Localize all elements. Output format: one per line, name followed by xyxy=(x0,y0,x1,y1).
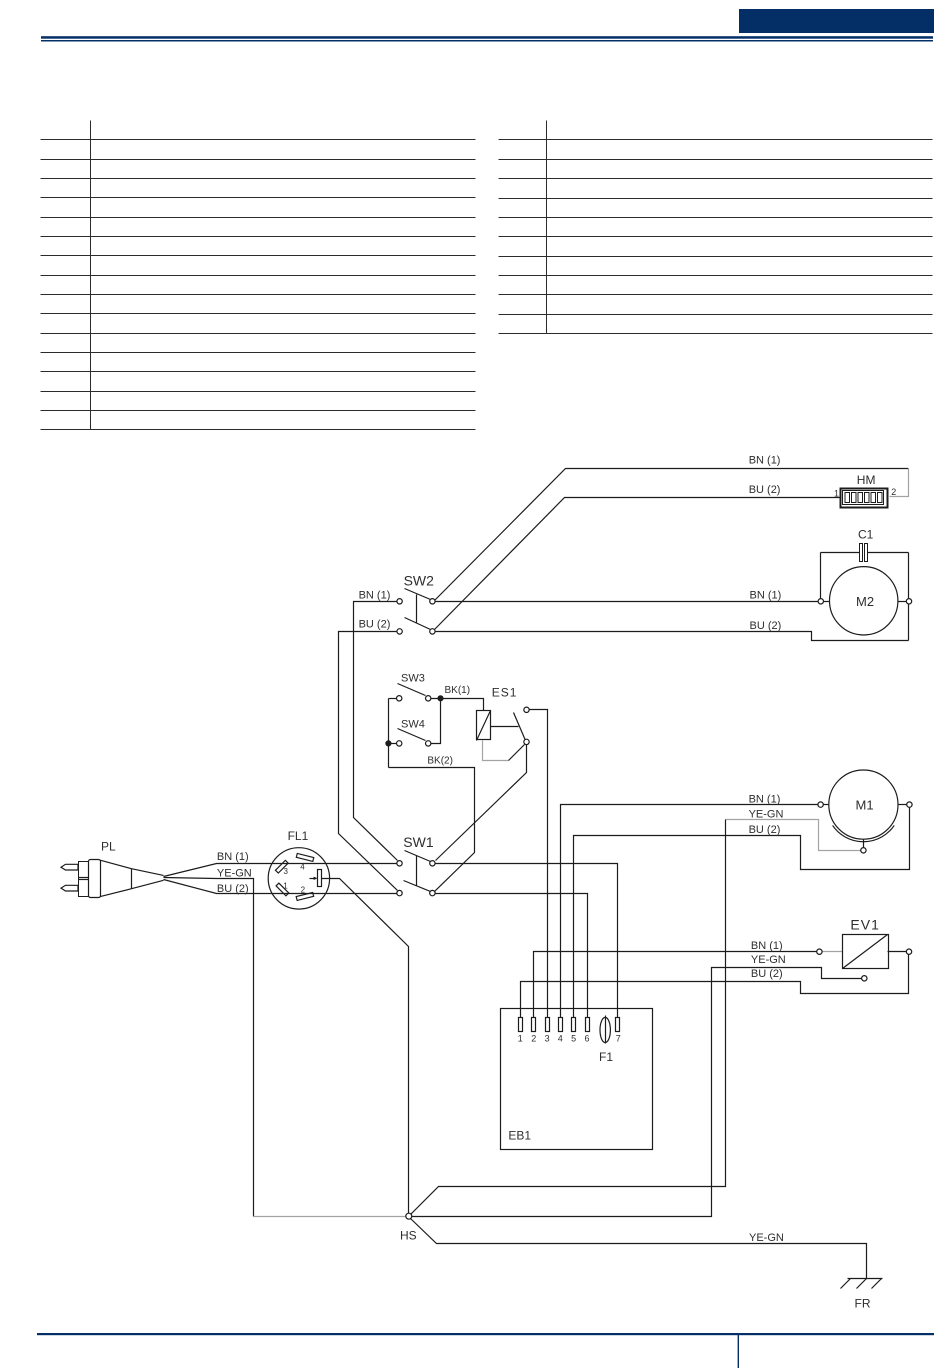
wire BN(1) SW2 left feed xyxy=(354,602,398,861)
capacitor C1 xyxy=(821,544,909,641)
wire BU(2) EB1 pin 5 to M1 xyxy=(574,808,910,1018)
junction SW4 left xyxy=(386,741,391,746)
wire SW3/SW4 left link xyxy=(389,699,397,768)
svg-text:3: 3 xyxy=(545,1034,550,1044)
svg-text:YE-GN: YE-GN xyxy=(749,808,784,820)
fuse F1 xyxy=(600,1016,610,1044)
svg-text:F1: F1 xyxy=(599,1050,613,1064)
svg-text:2: 2 xyxy=(531,1034,536,1044)
footer rule xyxy=(37,1333,934,1335)
motor M2 xyxy=(818,567,912,635)
wire BU(2) EB1 pin 1 to EV1 xyxy=(521,955,909,1018)
svg-text:7: 7 xyxy=(616,1034,621,1044)
svg-text:ES1: ES1 xyxy=(492,685,518,699)
hour meter HM xyxy=(841,489,888,508)
svg-text:1: 1 xyxy=(834,489,839,499)
svg-text:BN (1): BN (1) xyxy=(749,455,781,467)
switch SW1 xyxy=(397,851,435,896)
legend table right xyxy=(499,121,933,334)
wire YE-GN EV1 to HS xyxy=(412,968,865,1217)
switch SW3 xyxy=(397,684,431,702)
node HS xyxy=(406,1213,412,1219)
wire BN(1) plug to SW1 xyxy=(164,864,397,877)
header double rule xyxy=(41,36,933,39)
wire YE-GN plug to HS xyxy=(164,878,406,1217)
svg-text:3: 3 xyxy=(284,867,289,876)
svg-text:FL1: FL1 xyxy=(288,829,309,843)
switch SW2 xyxy=(397,589,435,635)
wire ES1 bottom to SW1 xyxy=(436,745,527,861)
svg-text:YE-GN: YE-GN xyxy=(749,1232,784,1244)
svg-text:HS: HS xyxy=(400,1229,417,1243)
switch SW4 xyxy=(397,729,431,747)
svg-text:BU (2): BU (2) xyxy=(749,484,781,496)
svg-text:YE-GN: YE-GN xyxy=(751,954,786,966)
svg-text:BU (2): BU (2) xyxy=(750,620,782,632)
wire BU(2) plug to SW1 xyxy=(164,880,397,894)
svg-text:PL: PL xyxy=(101,840,116,854)
svg-text:HM: HM xyxy=(857,473,876,487)
mains filter FL1 xyxy=(268,848,329,909)
header banner xyxy=(739,9,934,33)
wire BN(1) EB1 pin 4 to M1 xyxy=(561,805,818,1018)
wire BK(2) to SW1 xyxy=(389,768,475,892)
svg-text:YE-GN: YE-GN xyxy=(217,867,252,879)
svg-text:5: 5 xyxy=(571,1034,576,1044)
svg-text:EB1: EB1 xyxy=(508,1129,531,1143)
control board EB1 xyxy=(501,1009,653,1150)
svg-text:FR: FR xyxy=(855,1297,871,1311)
svg-text:SW2: SW2 xyxy=(404,572,435,588)
wire SW1 top to EB1 pin 7 xyxy=(436,864,618,1018)
svg-text:BU (2): BU (2) xyxy=(749,824,781,836)
svg-text:1: 1 xyxy=(518,1034,523,1044)
wire BK(1) SW3/SW4 to ES1 xyxy=(431,699,484,744)
svg-text:EV1: EV1 xyxy=(850,917,879,933)
svg-text:BN (1): BN (1) xyxy=(749,793,781,805)
svg-text:2: 2 xyxy=(891,487,896,497)
svg-text:SW1: SW1 xyxy=(403,834,434,850)
svg-text:SW3: SW3 xyxy=(401,673,425,685)
svg-text:SW4: SW4 xyxy=(401,719,425,731)
wire YE-GN FL1 earth to HS xyxy=(322,879,409,1214)
motor M1 xyxy=(818,770,912,853)
svg-text:BK(2): BK(2) xyxy=(427,756,453,767)
svg-text:BU (2): BU (2) xyxy=(359,619,391,631)
legend table left xyxy=(41,121,476,430)
wire BU(2) SW2 to HM pin 1 xyxy=(435,498,841,630)
solenoid valve EV1 xyxy=(817,935,912,982)
svg-text:BN (1): BN (1) xyxy=(751,940,783,952)
svg-text:M1: M1 xyxy=(856,798,874,813)
wire BN(1) SW2 to M2 xyxy=(435,601,819,603)
svg-text:BN (1): BN (1) xyxy=(750,589,782,601)
ground FR xyxy=(841,1279,883,1289)
wire BU(2) SW2 left feed xyxy=(339,632,398,891)
svg-text:1: 1 xyxy=(283,881,288,890)
svg-text:6: 6 xyxy=(585,1034,590,1044)
svg-text:BU (2): BU (2) xyxy=(751,968,783,980)
wire SW1 bottom to EB1 pin 6 xyxy=(436,894,588,1018)
svg-text:4: 4 xyxy=(558,1034,563,1044)
wire ES1 top to EB1 pin 3 xyxy=(530,710,548,1018)
junction SW3 right xyxy=(438,696,443,701)
wire BU(2) SW2 to M2 xyxy=(435,632,909,641)
svg-text:M2: M2 xyxy=(856,594,874,609)
wire BN(1) SW2 to HM xyxy=(435,469,909,601)
svg-text:2: 2 xyxy=(301,886,306,895)
thermal protector ES1 xyxy=(477,707,530,760)
wire BN(1) EB1 pin 2 to EV1 xyxy=(534,952,843,1018)
svg-text:BN (1): BN (1) xyxy=(359,589,391,601)
svg-text:4: 4 xyxy=(300,863,305,872)
wire YE-GN HS to FR xyxy=(411,1219,867,1279)
plug PL xyxy=(61,860,164,898)
svg-text:C1: C1 xyxy=(858,528,874,542)
svg-text:BN (1): BN (1) xyxy=(217,851,249,863)
svg-text:BU (2): BU (2) xyxy=(217,883,249,895)
wire YE-GN M1 to HS xyxy=(411,820,861,1215)
svg-text:BK(1): BK(1) xyxy=(445,685,471,696)
